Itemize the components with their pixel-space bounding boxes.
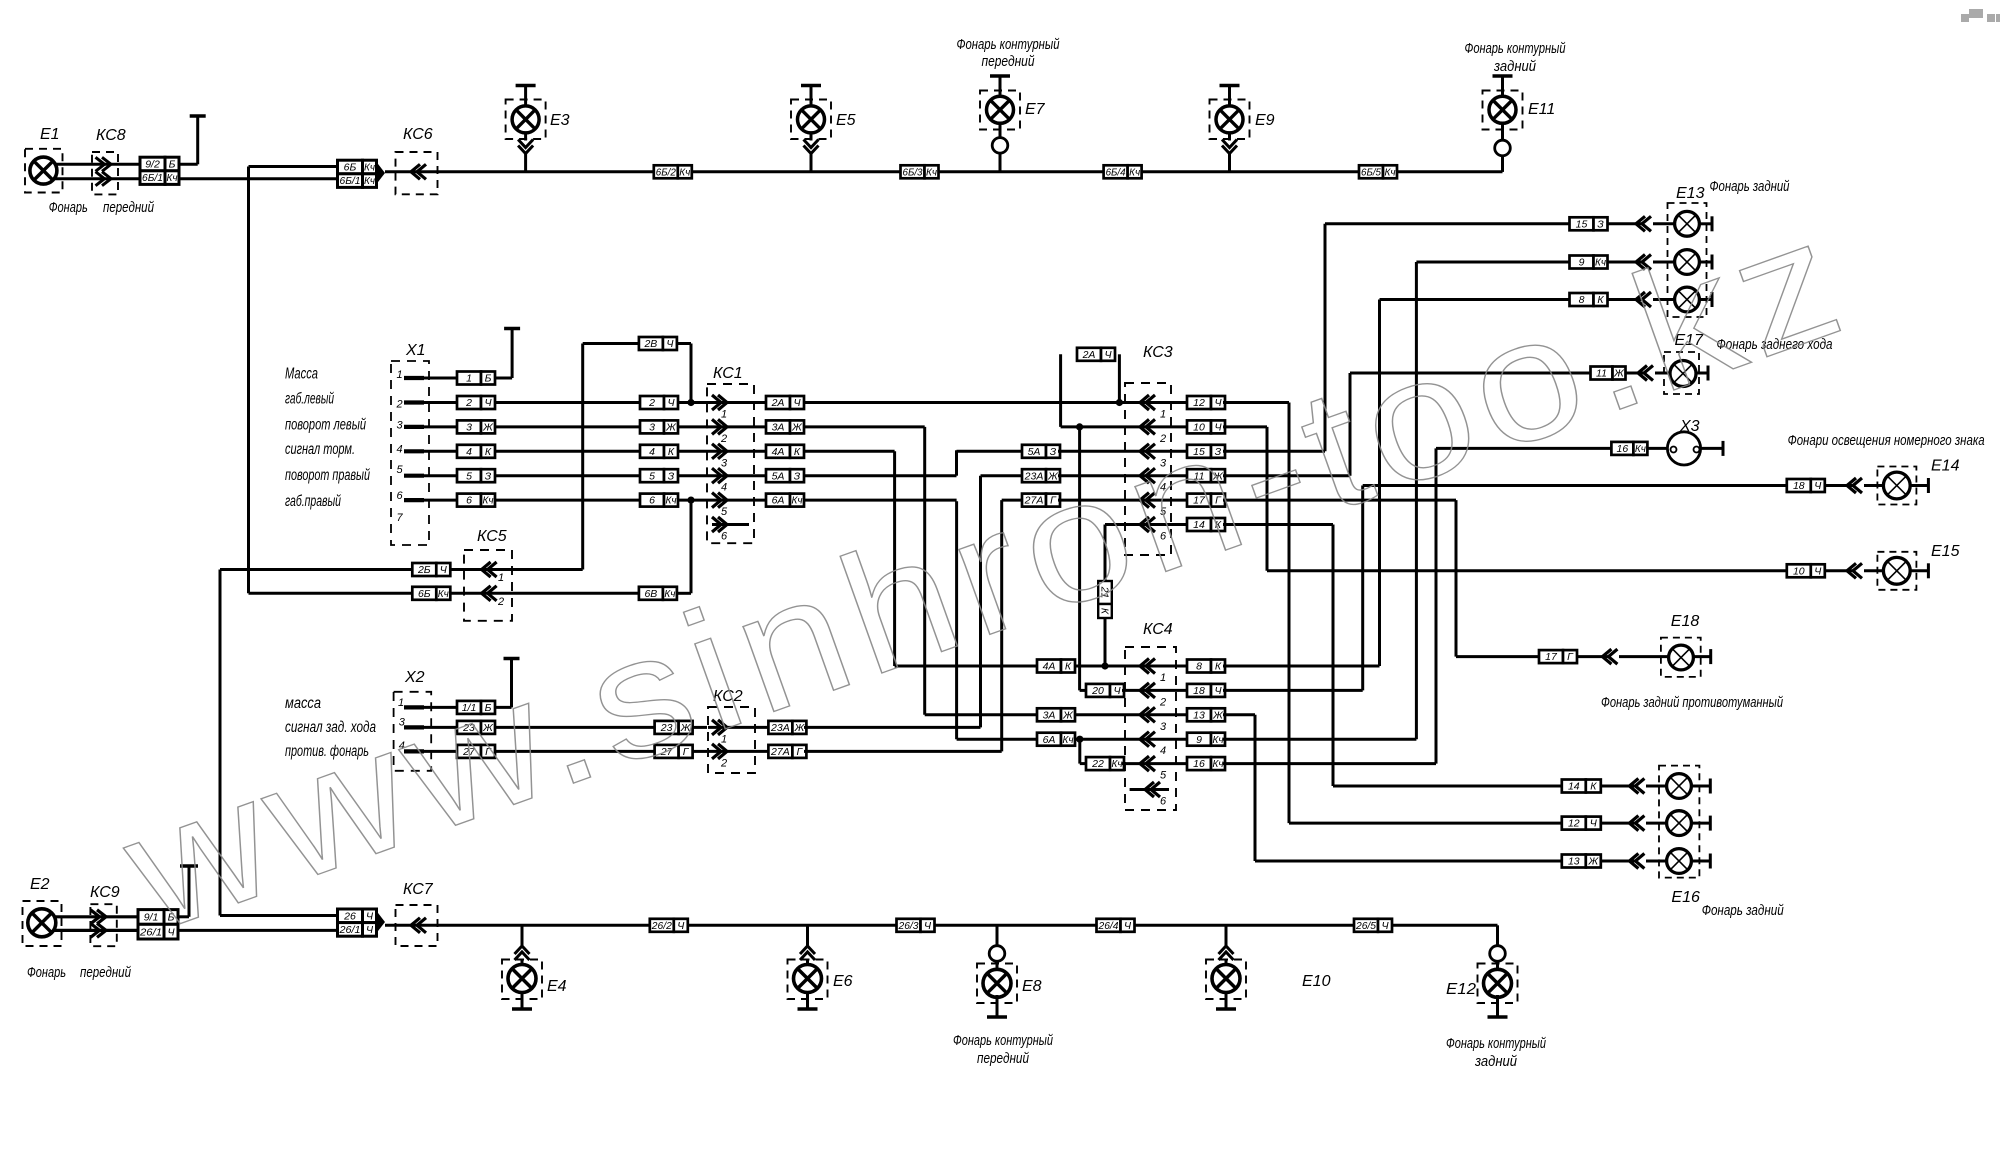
svg-text:2Б: 2Б (417, 564, 431, 576)
svg-text:E3: E3 (550, 112, 570, 129)
svg-text:Ж: Ж (1587, 856, 1599, 868)
svg-text:КС4: КС4 (1143, 621, 1173, 638)
svg-text:E8: E8 (1022, 978, 1042, 995)
svg-text:10: 10 (1793, 565, 1805, 577)
svg-text:E5: E5 (836, 112, 856, 129)
svg-text:передний: передний (977, 1050, 1030, 1067)
svg-text:12: 12 (1568, 818, 1580, 830)
svg-text:3: 3 (466, 422, 472, 434)
svg-text:КС6: КС6 (403, 126, 433, 143)
svg-text:Ж: Ж (1212, 709, 1224, 721)
svg-text:З: З (1597, 218, 1604, 230)
svg-text:Фонарь задний противотуманный: Фонарь задний противотуманный (1601, 694, 1783, 711)
svg-text:Кч: Кч (792, 495, 804, 507)
svg-text:Кч: Кч (167, 172, 179, 184)
svg-text:3: 3 (649, 422, 655, 434)
svg-text:задний: задний (1474, 1053, 1517, 1070)
svg-text:1: 1 (498, 572, 504, 584)
svg-text:Ч: Ч (677, 920, 685, 932)
svg-text:1: 1 (397, 369, 403, 381)
svg-text:габ.левый: габ.левый (285, 390, 334, 407)
svg-text:2: 2 (648, 397, 655, 409)
svg-text:КС9: КС9 (90, 884, 120, 901)
svg-text:E2: E2 (30, 876, 50, 893)
svg-text:КС5: КС5 (477, 528, 507, 545)
svg-text:20: 20 (1091, 685, 1104, 697)
svg-text:Ч: Ч (1381, 920, 1389, 932)
svg-text:3: 3 (397, 420, 404, 432)
svg-text:8: 8 (1196, 661, 1202, 673)
svg-text:2В: 2В (643, 338, 657, 350)
svg-text:6Б/2: 6Б/2 (656, 166, 676, 178)
svg-text:4: 4 (649, 446, 655, 458)
svg-text:7: 7 (397, 512, 404, 524)
svg-text:Фонарь контурный: Фонарь контурный (953, 1032, 1053, 1049)
svg-text:Кч: Кч (1385, 166, 1397, 178)
svg-text:Фонари освещения номерного зна: Фонари освещения номерного знака (1788, 432, 1985, 449)
svg-text:2: 2 (1159, 696, 1166, 708)
svg-text:К: К (1065, 661, 1072, 673)
svg-text:З: З (794, 470, 801, 482)
svg-text:Фонарь контурный: Фонарь контурный (957, 36, 1060, 53)
svg-text:2: 2 (720, 433, 727, 445)
svg-text:Кч: Кч (1129, 166, 1141, 178)
svg-text:3: 3 (1160, 721, 1167, 733)
svg-text:6: 6 (1160, 796, 1167, 808)
svg-text:2А: 2А (771, 397, 785, 409)
svg-text:КС7: КС7 (403, 881, 434, 898)
svg-text:18: 18 (1193, 685, 1205, 697)
svg-text:5: 5 (1160, 770, 1167, 782)
svg-text:6А: 6А (1043, 734, 1056, 746)
svg-text:поворот левый: поворот левый (285, 416, 366, 433)
svg-text:Ч: Ч (440, 564, 448, 576)
svg-text:E14: E14 (1931, 458, 1960, 475)
svg-text:26/1: 26/1 (338, 924, 360, 936)
svg-text:4: 4 (1160, 745, 1166, 757)
svg-text:15: 15 (1576, 218, 1588, 230)
svg-text:4: 4 (397, 443, 403, 455)
svg-text:КС8: КС8 (96, 127, 126, 144)
svg-text:E1: E1 (40, 126, 60, 143)
svg-text:2: 2 (497, 596, 504, 608)
svg-text:E4: E4 (547, 978, 567, 995)
svg-text:Ч: Ч (667, 397, 675, 409)
svg-text:Б: Б (485, 373, 492, 385)
svg-text:сигнал торм.: сигнал торм. (285, 441, 355, 458)
svg-text:X1: X1 (405, 342, 426, 359)
svg-text:К: К (485, 446, 492, 458)
svg-text:E13: E13 (1676, 185, 1705, 202)
svg-text:Ч: Ч (1104, 349, 1112, 361)
svg-text:6Б: 6Б (344, 162, 357, 174)
svg-text:задний: задний (1493, 58, 1536, 75)
svg-text:6: 6 (397, 490, 404, 502)
svg-text:6Б/5: 6Б/5 (1361, 166, 1381, 178)
svg-text:E10: E10 (1302, 973, 1331, 990)
svg-text:6А: 6А (772, 495, 785, 507)
svg-text:17: 17 (1545, 651, 1558, 663)
svg-text:Ч: Ч (666, 338, 674, 350)
svg-text:Ж: Ж (665, 422, 677, 434)
svg-text:6Б/1: 6Б/1 (340, 175, 361, 187)
svg-text:26/2: 26/2 (651, 920, 672, 932)
svg-text:Ч: Ч (1590, 818, 1598, 830)
svg-text:З: З (485, 470, 492, 482)
svg-text:9: 9 (1196, 734, 1202, 746)
svg-text:3А: 3А (772, 422, 785, 434)
svg-text:22: 22 (1091, 758, 1104, 770)
svg-text:К: К (1215, 661, 1222, 673)
svg-text:Ч: Ч (793, 397, 801, 409)
svg-text:Кч: Кч (1213, 758, 1225, 770)
svg-text:Ч: Ч (366, 910, 374, 922)
svg-text:4: 4 (466, 446, 472, 458)
svg-text:Кч: Кч (926, 166, 938, 178)
svg-text:5А: 5А (772, 470, 785, 482)
svg-text:Ж: Ж (1062, 709, 1074, 721)
svg-text:18: 18 (1793, 480, 1805, 492)
svg-text:E16: E16 (1671, 889, 1700, 906)
svg-text:4А: 4А (772, 446, 785, 458)
svg-text:26/5: 26/5 (1355, 920, 1376, 932)
svg-text:E15: E15 (1931, 543, 1960, 560)
svg-text:6Б: 6Б (418, 588, 431, 600)
svg-text:Фонарь задний: Фонарь задний (1702, 902, 1785, 919)
svg-text:E12: E12 (1446, 981, 1476, 998)
svg-text:6Б/1: 6Б/1 (142, 172, 163, 184)
svg-text:Фонарь: Фонарь (27, 964, 66, 981)
svg-text:26/3: 26/3 (898, 920, 919, 932)
svg-text:26/4: 26/4 (1098, 920, 1119, 932)
svg-text:2: 2 (396, 399, 403, 411)
svg-text:5: 5 (721, 506, 728, 518)
svg-text:передний: передний (80, 964, 132, 981)
svg-text:6Б/3: 6Б/3 (903, 166, 923, 178)
svg-text:E6: E6 (833, 973, 853, 990)
svg-text:Кч: Кч (1635, 443, 1647, 455)
svg-text:Ж: Ж (791, 422, 803, 434)
svg-text:Масса: Масса (285, 366, 318, 383)
svg-text:Ч: Ч (1214, 685, 1222, 697)
svg-text:1: 1 (721, 409, 727, 421)
svg-text:2: 2 (465, 397, 472, 409)
svg-text:16: 16 (1193, 758, 1205, 770)
svg-text:Ч: Ч (1113, 685, 1121, 697)
svg-text:4: 4 (721, 482, 727, 494)
svg-text:13: 13 (1568, 856, 1580, 868)
svg-text:4А: 4А (1043, 661, 1056, 673)
svg-text:Ч: Ч (484, 397, 492, 409)
svg-text:Кч: Кч (438, 588, 450, 600)
svg-text:поворот правый: поворот правый (285, 467, 370, 484)
svg-text:E7: E7 (1025, 101, 1046, 118)
svg-text:Фонарь: Фонарь (49, 199, 88, 216)
svg-text:Ч: Ч (366, 924, 374, 936)
svg-text:E18: E18 (1671, 613, 1700, 630)
svg-text:6: 6 (649, 495, 655, 507)
svg-text:6: 6 (466, 495, 472, 507)
svg-text:Фонарь контурный: Фонарь контурный (1446, 1035, 1546, 1052)
svg-text:К: К (1590, 781, 1597, 793)
svg-text:Кч: Кч (364, 175, 376, 187)
svg-text:Ж: Ж (482, 422, 494, 434)
svg-text:14: 14 (1568, 781, 1580, 793)
svg-text:5: 5 (649, 470, 655, 482)
svg-text:E11: E11 (1528, 101, 1555, 118)
svg-text:26: 26 (343, 910, 356, 922)
svg-text:передний: передний (982, 53, 1036, 70)
svg-text:К: К (668, 446, 675, 458)
svg-text:габ.правый: габ.правый (285, 493, 341, 510)
svg-text:Кч: Кч (483, 495, 495, 507)
svg-text:Кч: Кч (666, 495, 678, 507)
svg-text:6Б/4: 6Б/4 (1106, 166, 1126, 178)
svg-text:КС3: КС3 (1143, 344, 1173, 361)
svg-text:1: 1 (1160, 672, 1166, 684)
svg-text:3А: 3А (1043, 709, 1056, 721)
svg-text:КС1: КС1 (713, 365, 743, 382)
svg-text:Ч: Ч (1814, 480, 1822, 492)
svg-text:5: 5 (466, 470, 472, 482)
svg-text:передний: передний (103, 199, 155, 216)
svg-text:Кч: Кч (679, 166, 691, 178)
svg-text:3: 3 (721, 457, 728, 469)
svg-text:6: 6 (721, 531, 728, 543)
svg-text:13: 13 (1193, 709, 1205, 721)
svg-text:З: З (668, 470, 675, 482)
svg-text:масса: масса (285, 695, 321, 712)
svg-text:Фонарь контурный: Фонарь контурный (1465, 40, 1566, 57)
svg-text:Кч: Кч (364, 162, 376, 174)
svg-text:Ч: Ч (924, 920, 932, 932)
svg-text:1: 1 (466, 373, 472, 385)
svg-text:Кч: Кч (1213, 734, 1225, 746)
svg-text:Ч: Ч (1124, 920, 1132, 932)
svg-text:5: 5 (397, 464, 404, 476)
svg-text:Кч: Кч (1063, 734, 1075, 746)
svg-text:Кч: Кч (1112, 758, 1124, 770)
svg-text:9/2: 9/2 (145, 159, 160, 171)
svg-text:2А: 2А (1082, 349, 1096, 361)
svg-text:Ч: Ч (1814, 565, 1822, 577)
svg-text:К: К (794, 446, 801, 458)
svg-text:E9: E9 (1255, 112, 1275, 129)
svg-text:Б: Б (169, 159, 176, 171)
